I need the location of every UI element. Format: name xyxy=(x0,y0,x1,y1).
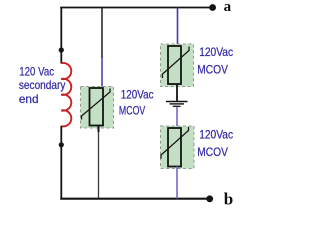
varistor RV3 right bottom MOV xyxy=(161,126,195,169)
svg-text:120Vac: 120Vac xyxy=(199,127,233,141)
svg-text:MCOV: MCOV xyxy=(197,145,228,159)
label 120 Vac secondary end xyxy=(19,65,66,106)
wire middle branch upper blue lead xyxy=(101,58,103,89)
svg-text:MCOV: MCOV xyxy=(197,62,228,76)
svg-text:120 Vac: 120 Vac xyxy=(19,65,54,79)
wire right branch MOV to ground xyxy=(176,84,178,101)
junction dot upper left xyxy=(59,47,64,52)
wire bottom bus xyxy=(60,198,210,200)
label 120Vac MCOV right top xyxy=(197,45,233,76)
svg-text:120Vac: 120Vac xyxy=(199,45,233,59)
svg-text:120Vac: 120Vac xyxy=(121,88,154,102)
wire middle branch lower xyxy=(98,132,100,199)
inductor L1 120 Vac secondary coil xyxy=(61,63,71,126)
varistor RV2 right top MOV xyxy=(161,44,194,87)
wire left branch lower xyxy=(60,126,62,199)
wire middle MOV bottom stub xyxy=(98,126,100,133)
svg-text:end: end xyxy=(19,92,39,106)
wire left branch upper xyxy=(60,8,62,64)
label 120Vac MCOV right bottom xyxy=(197,127,233,159)
label 120Vac MCOV middle xyxy=(119,88,154,118)
svg-text:b: b xyxy=(224,189,233,208)
varistor RV1 middle MOV xyxy=(81,87,114,129)
wire right branch upper blue lead xyxy=(177,8,179,48)
svg-text:secondary: secondary xyxy=(19,78,66,92)
junction dot lower left xyxy=(59,142,64,147)
terminal b dot xyxy=(206,195,213,202)
svg-text:MCOV: MCOV xyxy=(119,103,145,117)
wire ground to right bottom MOV purple lead xyxy=(176,107,178,129)
svg-text:a: a xyxy=(224,0,232,15)
wire right bottom MOV to bottom bus purple lead xyxy=(176,167,178,199)
ground symbol xyxy=(166,102,188,107)
wire top bus xyxy=(60,7,212,9)
terminal a dot xyxy=(209,4,216,11)
wire middle branch upper black xyxy=(101,8,103,59)
